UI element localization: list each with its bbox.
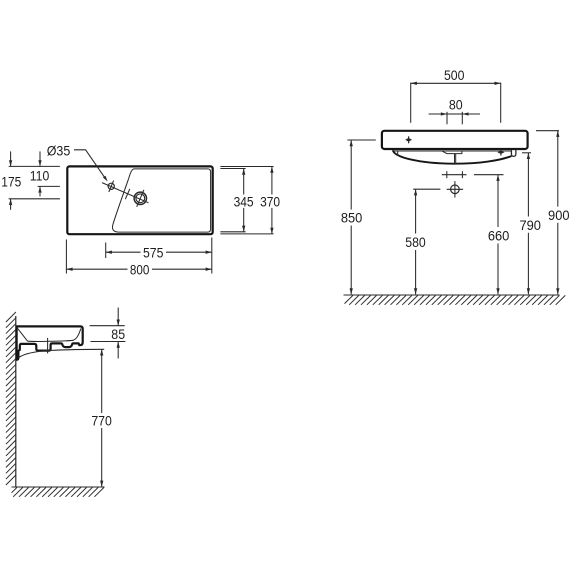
svg-text:345: 345 — [234, 193, 254, 209]
basin outer rim (plan) — [67, 166, 212, 234]
bowl interior right slope (side) — [74, 329, 81, 341]
svg-text:850: 850 — [341, 210, 363, 226]
dim line 900 — [557, 131, 559, 207]
dim line 850 — [350, 140, 352, 209]
ext line 900 — [536, 130, 559, 132]
floor hatching (side view) — [12, 487, 105, 496]
dim line 790 — [527, 153, 529, 217]
basin profile outline (side, thick) — [17, 326, 83, 359]
dim line 500 — [411, 82, 501, 84]
drain (plan) inner circle — [136, 194, 145, 203]
svg-text:800: 800 — [130, 261, 150, 277]
faucet hole (plan) — [108, 183, 114, 189]
dim line 660 — [497, 175, 499, 227]
svg-text:Ø35: Ø35 — [47, 142, 71, 158]
svg-text:80: 80 — [449, 97, 463, 113]
underside curve (side) + 770 ext — [19, 349, 105, 357]
ext line faucet level — [38, 185, 60, 187]
dim line 575 — [106, 251, 141, 253]
svg-text:175: 175 — [1, 173, 21, 189]
svg-text:370: 370 — [260, 193, 280, 209]
ext lines for 500 — [410, 83, 412, 123]
leader line from diameter label — [74, 150, 105, 178]
left fixing tab — [397, 151, 399, 156]
right fixing tab — [511, 150, 516, 156]
wall line — [15, 316, 17, 487]
basin inner rim (plan) — [112, 169, 210, 232]
dim 110 arrows — [39, 151, 41, 166]
drain (plan) outer circle — [134, 192, 146, 204]
drain pipe stub — [454, 154, 456, 164]
ext lines right of plan — [220, 166, 273, 168]
bottom ext lines (plan) — [65, 240, 67, 274]
side view group — [6, 308, 126, 497]
faucet-drain axis line — [102, 183, 149, 203]
dim 80 ticks — [446, 112, 448, 125]
overflow mark (front right, hidden) — [497, 151, 504, 154]
dim line 580 — [415, 189, 417, 233]
dim line 770 — [101, 350, 103, 414]
dim line 345 — [243, 169, 245, 195]
bowl underside curve (front) — [393, 150, 512, 164]
bowl interior front edge (side) — [28, 340, 74, 341]
basin apron front outline — [382, 131, 528, 149]
siphon outlet circle — [451, 185, 460, 194]
bowl interior left slope (side) — [17, 328, 27, 341]
floor line (side view) — [12, 486, 105, 488]
axis middle tick — [125, 189, 130, 199]
drain recess (front) — [442, 151, 462, 154]
ext line 850 — [347, 139, 375, 141]
floor hatching (front view) — [345, 295, 566, 304]
floor line (front view) — [344, 294, 560, 296]
front view group — [341, 67, 570, 305]
svg-text:85: 85 — [111, 326, 125, 342]
dim line 80 with outside arrows — [447, 113, 462, 115]
svg-text:900: 900 — [548, 207, 570, 223]
svg-text:790: 790 — [519, 217, 541, 233]
plan view group — [1, 142, 280, 277]
ext line 580 — [413, 188, 440, 190]
svg-text:110: 110 — [30, 168, 50, 184]
ext line 790 — [522, 152, 531, 154]
drain crosshair tick — [137, 190, 144, 207]
dim 85 arrows — [117, 308, 119, 326]
bowl back top edge (thin) — [393, 150, 512, 152]
svg-text:580: 580 — [405, 234, 426, 250]
svg-text:500: 500 — [444, 67, 465, 83]
ext lines 85 — [90, 325, 125, 327]
svg-text:660: 660 — [488, 227, 510, 243]
faucet hole crosshair tick — [109, 181, 114, 192]
ext line 660 — [474, 174, 504, 176]
dim 175 arrows — [10, 151, 12, 166]
drain axis (side) — [47, 338, 49, 354]
svg-text:770: 770 — [91, 413, 112, 429]
svg-text:575: 575 — [143, 244, 164, 260]
wall hatching — [6, 312, 16, 485]
ext line top-left (plan) — [9, 165, 60, 167]
dim line 370 — [271, 167, 273, 195]
trap fixing crosses below basin — [442, 174, 467, 176]
ext line drain level — [9, 198, 60, 200]
dim line 800 — [67, 268, 128, 270]
faucet hole mark (front, hidden) — [405, 138, 412, 142]
